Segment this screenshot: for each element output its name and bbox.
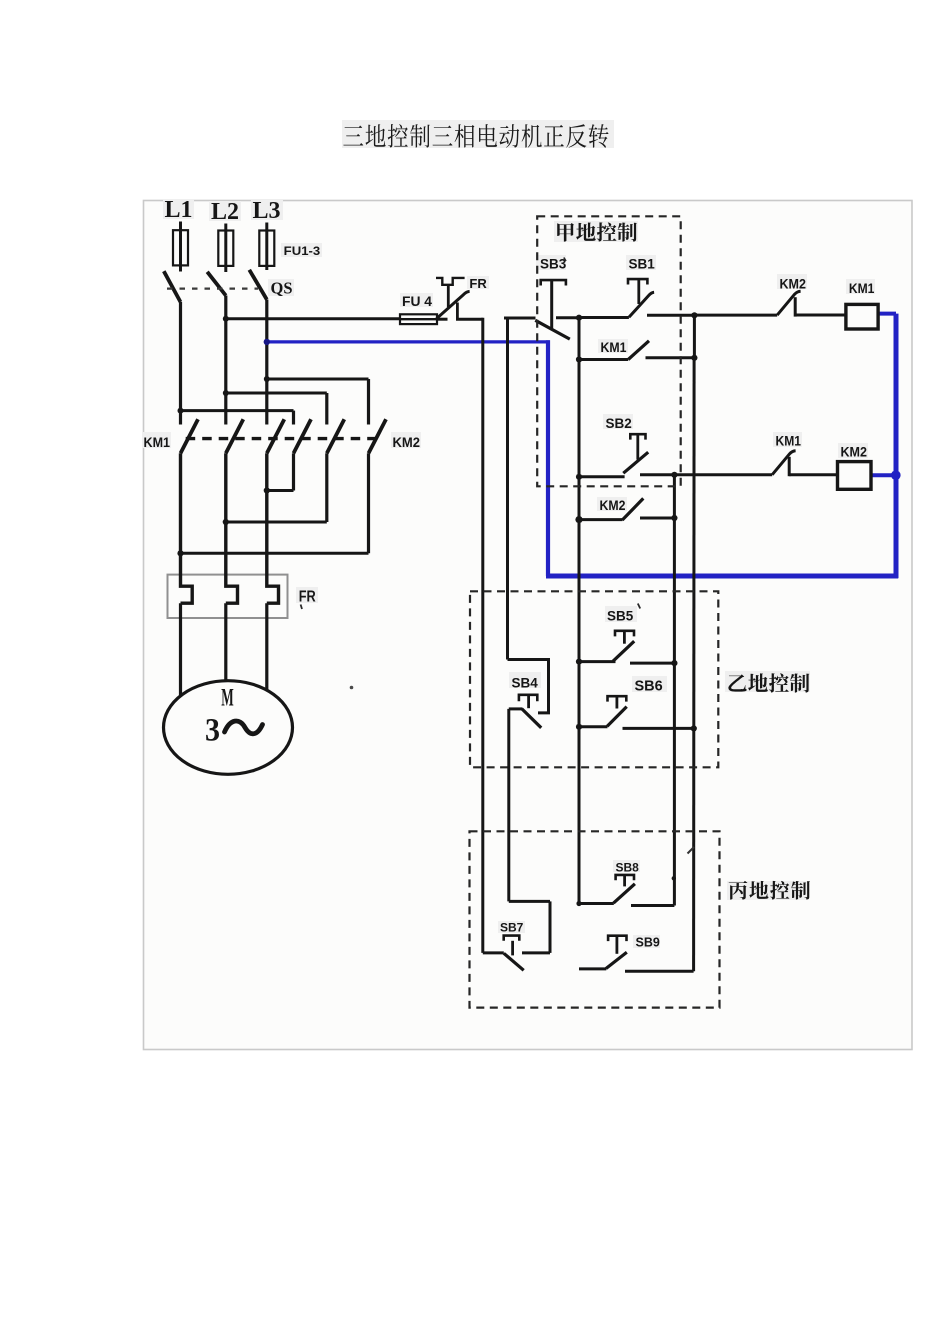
svg-text:KM1: KM1 bbox=[601, 340, 627, 355]
svg-text:KM1: KM1 bbox=[849, 281, 875, 296]
svg-text:L3: L3 bbox=[252, 198, 280, 224]
svg-text:SB2: SB2 bbox=[606, 416, 632, 431]
svg-text:L2: L2 bbox=[211, 199, 239, 225]
svg-text:KM1: KM1 bbox=[144, 434, 171, 450]
svg-text:FR: FR bbox=[469, 276, 487, 291]
svg-text:FU1-3: FU1-3 bbox=[284, 244, 321, 258]
svg-text:QS: QS bbox=[271, 279, 293, 298]
svg-text:KM2: KM2 bbox=[780, 276, 807, 291]
svg-text:M: M bbox=[221, 685, 234, 712]
svg-text:KM2: KM2 bbox=[841, 444, 868, 459]
svg-text:SB4: SB4 bbox=[512, 675, 539, 690]
svg-text:SB7: SB7 bbox=[500, 920, 524, 934]
svg-text:FU 4: FU 4 bbox=[402, 294, 432, 309]
svg-text:SB8: SB8 bbox=[616, 860, 640, 874]
svg-text:KM2: KM2 bbox=[600, 498, 626, 513]
svg-text:3: 3 bbox=[205, 713, 220, 749]
svg-text:SB9: SB9 bbox=[636, 935, 660, 949]
svg-text:KM1: KM1 bbox=[776, 434, 802, 449]
svg-text:SB1: SB1 bbox=[629, 257, 656, 272]
svg-text:L1: L1 bbox=[164, 197, 192, 223]
svg-text:SB6: SB6 bbox=[635, 679, 663, 695]
svg-text:KM2: KM2 bbox=[393, 434, 421, 450]
svg-text:FR: FR bbox=[299, 589, 316, 606]
svg-text:SB3: SB3 bbox=[540, 257, 567, 272]
svg-text:SB5: SB5 bbox=[607, 609, 634, 624]
